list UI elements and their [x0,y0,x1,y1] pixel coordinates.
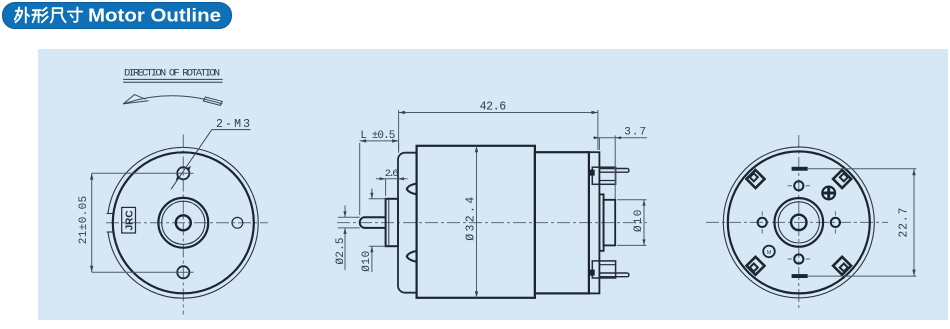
svg-text:22.7: 22.7 [897,208,910,238]
svg-text:L ±0.5: L ±0.5 [360,130,395,142]
svg-text:Ø2.5: Ø2.5 [335,238,347,265]
svg-text:Ø10: Ø10 [633,210,645,232]
svg-text:2.6: 2.6 [385,168,399,180]
svg-text:DIRECTION OF ROTATION: DIRECTION OF ROTATION [124,68,220,80]
svg-text:2-M3: 2-M3 [216,118,250,131]
svg-text:M: M [767,250,772,256]
svg-text:21±0.05: 21±0.05 [78,196,90,244]
svg-text:Motor Outline: Motor Outline [88,6,221,26]
svg-text:Ø32.4: Ø32.4 [465,197,478,241]
svg-text:42.6: 42.6 [480,100,507,113]
svg-text:3.7: 3.7 [624,127,646,139]
svg-text:Ø10: Ø10 [361,251,373,272]
svg-text:JRC: JRC [125,210,136,230]
